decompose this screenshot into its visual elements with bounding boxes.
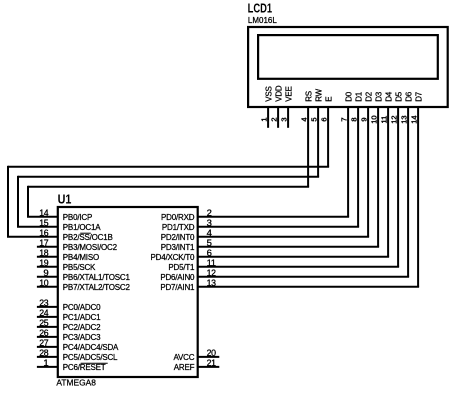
wire: LCD D7 (pin 14) vertical drop: [417, 107, 419, 287]
svg-text:VSS: VSS: [265, 86, 274, 101]
wire: U1 pin 19 stub: [37, 266, 58, 268]
svg-text:PD3/INT1: PD3/INT1: [161, 243, 195, 252]
overline for SS on U1 pin 16 name: [80, 232, 91, 234]
wire: E net horizontal run: [8, 166, 329, 168]
svg-text:PD0/RXD: PD0/RXD: [161, 213, 195, 222]
wire: RS net horizontal run: [28, 186, 309, 188]
LCD LCD1 display window: [258, 35, 438, 79]
svg-text:U1: U1: [58, 192, 72, 206]
svg-text:PC4/ADC4/SDA: PC4/ADC4/SDA: [63, 343, 119, 352]
svg-text:PC6/RESET: PC6/RESET: [63, 363, 106, 372]
svg-text:VEE: VEE: [285, 86, 294, 101]
wire: D2 net horizontal into U1 PD2 (pin 4): [198, 236, 369, 238]
svg-text:D7: D7: [415, 91, 424, 102]
svg-text:PD1/TXD: PD1/TXD: [162, 223, 195, 232]
wire: RW net horizontal run: [18, 176, 319, 178]
svg-text:1: 1: [43, 358, 48, 369]
wire: LCD E (pin 6) vertical drop: [327, 107, 329, 167]
svg-text:D6: D6: [405, 91, 414, 102]
svg-text:PC0/ADC0: PC0/ADC0: [63, 303, 101, 312]
svg-text:LM016L: LM016L: [248, 16, 277, 25]
wire: U1 pin 10 stub: [37, 286, 58, 288]
wire: U1 pin 20 stub: [198, 356, 220, 358]
svg-text:PD7/AIN1: PD7/AIN1: [160, 283, 195, 292]
svg-text:PB4/MISO: PB4/MISO: [63, 253, 99, 262]
wire: U1 pin 24 stub: [37, 316, 58, 318]
wire: LCD D0 (pin 7) vertical drop: [347, 107, 349, 217]
wire: RW net into U1 PB1 (pin 15): [17, 226, 58, 228]
wire: U1 pin 27 stub: [37, 346, 58, 348]
svg-text:PD6/AIN0: PD6/AIN0: [160, 273, 195, 282]
svg-text:PB2/SS/OC1B: PB2/SS/OC1B: [63, 233, 113, 242]
wire: U1 pin 25 stub: [37, 326, 58, 328]
wire: D0 net horizontal into U1 PD0 (pin 2): [198, 216, 349, 218]
svg-text:E: E: [325, 97, 334, 102]
wire: LCD RW (pin 5) vertical drop: [317, 107, 319, 177]
svg-text:PB5/SCK: PB5/SCK: [63, 263, 96, 272]
svg-text:AVCC: AVCC: [173, 353, 194, 362]
svg-text:D1: D1: [355, 91, 364, 102]
svg-text:PD5/T1: PD5/T1: [168, 263, 195, 272]
wire: U1 pin 1 stub: [37, 366, 58, 368]
LCD LCD1 body outline: [248, 27, 448, 107]
wire: D6 net horizontal into U1 PD6 (pin 12): [198, 276, 409, 278]
svg-text:PC2/ADC2: PC2/ADC2: [63, 323, 101, 332]
LCD pin 3 stub wire: [287, 107, 289, 128]
wire: LCD D1 (pin 8) vertical drop: [357, 107, 359, 227]
wire: U1 pin 28 stub: [37, 356, 58, 358]
svg-text:PB7/XTAL2/TOSC2: PB7/XTAL2/TOSC2: [63, 283, 131, 292]
svg-text:D3: D3: [375, 91, 384, 102]
wire: LCD D3 (pin 10) vertical drop: [377, 107, 379, 247]
wire: U1 pin 21 stub: [198, 366, 220, 368]
wire: RS net left vertical: [27, 186, 29, 217]
svg-text:PB0/ICP: PB0/ICP: [63, 213, 92, 222]
svg-text:D0: D0: [345, 91, 354, 102]
svg-text:PC1/ADC1: PC1/ADC1: [63, 313, 101, 322]
wire: LCD D2 (pin 9) vertical drop: [367, 107, 369, 237]
wire: LCD D5 (pin 12) vertical drop: [397, 107, 399, 267]
IC U1 body outline: [58, 207, 198, 377]
wire: E net left vertical: [7, 166, 9, 237]
svg-text:PB6/XTAL1/TOSC1: PB6/XTAL1/TOSC1: [63, 273, 131, 282]
svg-text:ATMEGA8: ATMEGA8: [56, 378, 96, 387]
svg-text:PC5/ADC5/SCL: PC5/ADC5/SCL: [63, 353, 118, 362]
wire: E net into U1 PB2 (pin 16): [7, 236, 58, 238]
wire: U1 pin 9 stub: [37, 276, 58, 278]
wire: U1 pin 23 stub: [37, 306, 58, 308]
svg-text:PB3/MOSI/OC2: PB3/MOSI/OC2: [63, 243, 118, 252]
wire: D3 net horizontal into U1 PD3 (pin 5): [198, 246, 379, 248]
wire: U1 pin 26 stub: [37, 336, 58, 338]
wire: LCD D4 (pin 11) vertical drop: [387, 107, 389, 257]
wire: U1 pin 17 stub: [37, 246, 58, 248]
svg-text:LCD1: LCD1: [248, 1, 273, 15]
wire: D1 net horizontal into U1 PD1 (pin 3): [198, 226, 359, 228]
wire: D4 net horizontal into U1 PD4 (pin 6): [198, 256, 389, 258]
svg-text:21: 21: [207, 358, 216, 369]
svg-text:10: 10: [39, 278, 48, 289]
svg-text:RS: RS: [305, 91, 314, 102]
LCD pin 2 stub wire: [277, 107, 279, 128]
svg-text:D2: D2: [365, 91, 374, 102]
svg-text:PD2/INT0: PD2/INT0: [161, 233, 195, 242]
svg-text:RW: RW: [315, 88, 324, 101]
svg-text:D5: D5: [395, 91, 404, 102]
wire: D5 net horizontal into U1 PD5 (pin 11): [198, 266, 399, 268]
svg-text:PB1/OC1A: PB1/OC1A: [63, 223, 101, 232]
wire: D7 net horizontal into U1 PD7 (pin 13): [198, 286, 419, 288]
wire: U1 pin 18 stub: [37, 256, 58, 258]
svg-text:PC3/ADC3: PC3/ADC3: [63, 333, 101, 342]
LCD pin 1 stub wire: [267, 107, 269, 128]
overline for RESET on U1 pin 1 name: [81, 362, 108, 364]
wire: LCD D6 (pin 13) vertical drop: [407, 107, 409, 277]
wire: RW net left vertical: [17, 176, 19, 227]
svg-text:PD4/XCK/T0: PD4/XCK/T0: [151, 253, 196, 262]
wire: RS net into U1 PB0 (pin 14): [27, 216, 58, 218]
svg-text:D4: D4: [385, 91, 394, 102]
wire: LCD RS (pin 4) vertical drop: [307, 107, 309, 187]
svg-text:VDD: VDD: [275, 85, 284, 102]
svg-text:AREF: AREF: [174, 363, 195, 372]
svg-text:13: 13: [207, 278, 216, 289]
